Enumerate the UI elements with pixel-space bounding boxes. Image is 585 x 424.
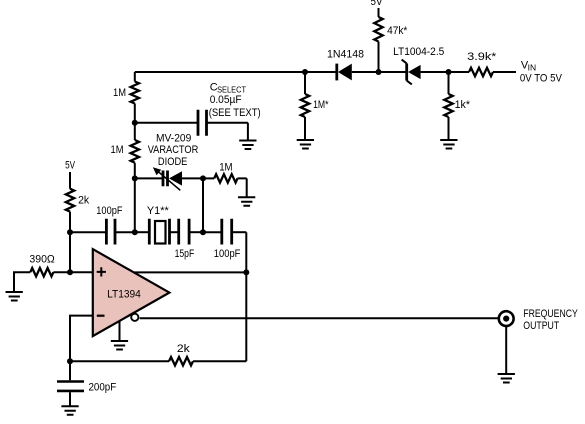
capacitor 200pF [57,361,116,405]
svg-text:1N4148: 1N4148 [327,48,364,60]
svg-text:0.05µF: 0.05µF [210,94,242,106]
svg-text:1k*: 1k* [455,99,471,111]
5V supply left [65,160,75,189]
node: top rail / 1M* [302,69,308,75]
resistor 2k [66,189,90,273]
resistor 2k feedback [169,343,193,366]
svg-text:VARACTOR: VARACTOR [148,144,199,156]
wire [135,231,150,233]
ground 390 [6,292,23,301]
resistor 1M (second of left chain) [111,140,140,232]
node: varactor junction [132,175,138,181]
svg-text:1M*: 1M* [313,99,329,111]
ground CSELECT [239,141,256,150]
node: zener / 1k junction [446,69,452,75]
svg-text:2k: 2k [177,343,190,355]
svg-text:5V: 5V [371,0,384,8]
node: feedback / + rail [243,269,249,275]
node: crystal left [132,229,138,235]
ground varactor 1M [238,197,255,206]
output connector [499,308,579,374]
resistor 3.9k* [467,51,497,76]
wire - input [70,316,93,362]
wire to CSELECT [135,122,198,124]
svg-text:390Ω: 390Ω [29,253,54,265]
node: CSELECT junction [132,120,138,126]
node: -/200pF/2k junction [67,358,73,364]
wire bottom row [70,360,246,362]
capacitor 100pF (left) [96,205,135,245]
wire [203,231,222,233]
crystal Y1** [147,205,179,245]
resistor 1M (top of left chain) [113,72,139,140]
svg-text:1M: 1M [113,87,126,99]
node: 2k / crystal row [67,229,73,235]
svg-text:1M: 1M [219,162,232,174]
svg-text:Y1**: Y1** [147,205,170,217]
resistor 1M (varactor bias) [203,162,247,197]
resistor 390ohm [29,253,92,276]
node: crystal right [200,229,206,235]
node: 47k / diode junction [376,69,382,75]
resistor 1M* pulldown [301,72,329,140]
node: + input [67,269,73,275]
resistor 1k* pulldown [444,72,470,140]
svg-text:LT1394: LT1394 [107,288,141,300]
node VIN [520,59,563,84]
capacitor 100pF (right) [214,219,247,260]
wire feedback rail down [245,232,247,361]
svg-text:1M: 1M [111,144,124,156]
wire top rail left [135,71,337,73]
svg-text:100pF: 100pF [214,248,241,260]
capacitor CSELECT [198,81,261,140]
wire feedback to + input (touches triangle edge) [134,271,246,273]
svg-text:47k*: 47k* [387,25,408,37]
output bubble [131,314,138,321]
ground 1M* [297,140,314,149]
svg-text:3.9k*: 3.9k* [467,51,497,63]
svg-text:IN: IN [528,64,537,73]
svg-text:200pF: 200pF [89,381,117,393]
svg-text:(SEE TEXT): (SEE TEXT) [209,107,261,119]
svg-text:OUTPUT: OUTPUT [523,320,559,332]
svg-text:2k: 2k [78,195,90,207]
wire varactor node down to crystal row [202,178,204,232]
svg-text:100pF: 100pF [96,205,122,217]
ground op-amp V- [111,321,128,350]
svg-text:LT1004-2.5: LT1004-2.5 [393,46,444,58]
wire crystal row [70,231,106,233]
diode 1N4148 [327,48,364,80]
wire [421,71,469,73]
varactor MV-209 [135,133,203,191]
resistor 47k* [374,17,408,72]
5V supply top [371,0,384,17]
wire to VIN [493,71,516,73]
svg-text:DIODE: DIODE [158,156,188,168]
ground 1k* [440,140,457,149]
ground output [498,374,515,383]
svg-text:FREQUENCY: FREQUENCY [523,308,578,320]
zener LT1004-2.5 [393,46,444,84]
capacitor 15pF [175,219,203,260]
node: varactor / 1M bias [200,175,206,181]
svg-text:0V TO 5V: 0V TO 5V [520,73,563,85]
ground 200pF [61,406,78,415]
wire output [140,317,499,319]
op-amp LT1394 [93,249,170,336]
svg-text:5V: 5V [65,160,75,172]
svg-text:MV-209: MV-209 [156,133,191,145]
wire [352,71,407,73]
svg-text:15pF: 15pF [175,248,195,260]
